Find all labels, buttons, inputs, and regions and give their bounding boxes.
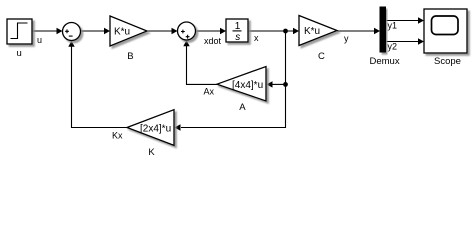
scope block	[424, 9, 467, 53]
arrowhead into sum1 west	[57, 28, 63, 34]
svg-text:Demux: Demux	[370, 56, 400, 67]
step symbol inside step block	[11, 23, 28, 39]
wire: integrator to gain C	[248, 30, 294, 32]
junction node on x wire	[283, 29, 288, 34]
svg-text:Scope: Scope	[434, 56, 461, 67]
arrowhead into sum2 south (pointing up)	[183, 40, 189, 46]
gain B	[110, 16, 147, 46]
plus sign (west input of S2)	[181, 30, 185, 34]
wire: demux out 2 to scope	[385, 41, 419, 43]
wire: gain B to sum2	[147, 30, 173, 32]
arrowhead into gain A (pointing left)	[267, 81, 273, 87]
sum junction S1	[63, 23, 81, 41]
svg-text:y2: y2	[388, 42, 398, 52]
gain C	[299, 16, 337, 46]
plus sign (west input of S1)	[65, 29, 69, 33]
minus sign (south input of S1)	[69, 35, 73, 37]
svg-text:Ax: Ax	[204, 87, 215, 97]
svg-text:K*u: K*u	[304, 26, 320, 37]
wire: gain A output up into sum2 south	[187, 46, 218, 85]
svg-text:[4x4]*u: [4x4]*u	[232, 80, 263, 91]
wire: gain C to demux	[337, 30, 375, 32]
gain K (points left)	[127, 110, 174, 146]
svg-text:xdot: xdot	[204, 36, 222, 46]
arrowhead into gain B	[104, 28, 110, 34]
svg-text:1: 1	[235, 21, 241, 32]
svg-text:Kx: Kx	[112, 131, 123, 141]
wire: feedback vertical from x junction down	[181, 31, 286, 128]
svg-text:K: K	[148, 147, 155, 158]
svg-text:u: u	[37, 35, 42, 45]
integrator fraction bar	[233, 30, 242, 32]
plus sign (south input of S2)	[186, 35, 190, 39]
arrowhead into scope in1	[418, 17, 424, 23]
arrowhead into sum2 west	[172, 28, 178, 34]
arrowhead into gain C	[293, 28, 299, 34]
svg-text:y: y	[344, 34, 349, 44]
svg-text:B: B	[127, 51, 133, 62]
scope screen	[432, 16, 459, 35]
svg-text:u: u	[17, 48, 22, 59]
svg-text:[2x4]*u: [2x4]*u	[140, 123, 171, 134]
svg-text:A: A	[239, 102, 246, 113]
wire: demux out 1 to scope	[385, 20, 419, 22]
wire: step output to sum1	[32, 30, 58, 32]
wire: gain K output up into sum1 south	[72, 46, 128, 128]
wire: sum1 to gain B	[81, 30, 106, 32]
svg-text:y1: y1	[388, 21, 398, 31]
arrowhead into sum1 south (pointing up)	[68, 41, 74, 47]
svg-text:C: C	[318, 51, 325, 62]
arrowhead into integrator	[220, 28, 226, 34]
arrowhead into demux	[374, 28, 380, 34]
svg-text:x: x	[254, 33, 259, 43]
integrator block 1/s	[226, 19, 248, 42]
arrowhead into gain K (pointing left)	[175, 124, 181, 130]
gain A (points left)	[217, 67, 266, 102]
junction node at A branch	[283, 82, 288, 87]
wire: branch to gain A input	[271, 83, 286, 85]
step source block u	[7, 19, 32, 44]
svg-text:K*u: K*u	[114, 27, 130, 38]
wire: sum2 to integrator	[196, 30, 222, 32]
sum junction S2	[178, 22, 196, 40]
demux block	[380, 7, 386, 52]
arrowhead into scope in2	[418, 38, 424, 44]
svg-text:s: s	[235, 32, 240, 43]
